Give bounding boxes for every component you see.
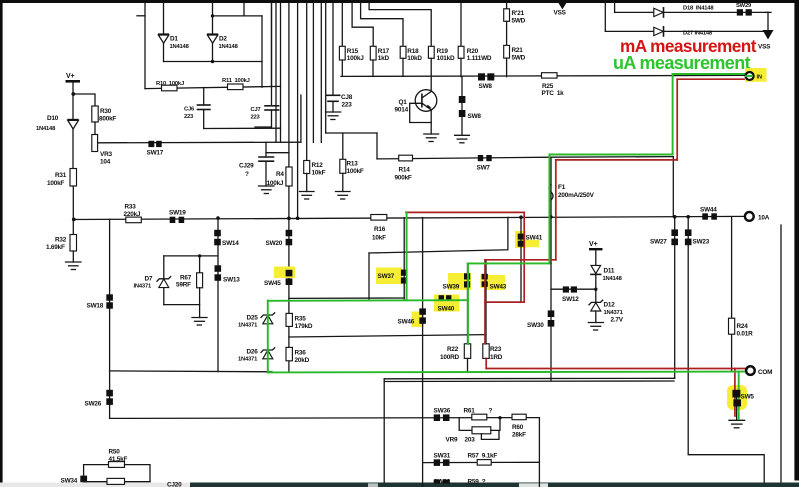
- switch SW30: [548, 310, 555, 317]
- svg-text:SW31: SW31: [434, 453, 451, 460]
- node main line left junction: [72, 218, 76, 222]
- node SW23 main junction: [686, 215, 690, 219]
- svg-text:223: 223: [251, 115, 261, 121]
- svg-text:SW40: SW40: [438, 306, 455, 313]
- node bus6 main junction: [296, 216, 300, 220]
- svg-text:SW46: SW46: [398, 319, 415, 326]
- svg-text:V+: V+: [66, 73, 74, 80]
- wire segment B y252: [369, 217, 508, 253]
- svg-text:D12: D12: [604, 302, 616, 309]
- svg-text:R57 9.1kF: R57 9.1kF: [468, 453, 498, 460]
- svg-text:SW19: SW19: [169, 210, 186, 217]
- wire V+ down: [72, 83, 74, 94]
- svg-text:R19: R19: [437, 48, 449, 55]
- highlight SW45: [274, 267, 295, 279]
- wire D27 row: [605, 30, 768, 32]
- route green SW40 horizontal: [268, 299, 468, 302]
- switch SW14: [214, 230, 221, 237]
- switch SW40: [439, 295, 444, 301]
- wire bus line 8 R12 column: [306, 3, 308, 161]
- route red COM horizontal: [486, 368, 746, 370]
- terminal IN: [746, 72, 754, 80]
- resistor R23 1RD: [483, 344, 489, 359]
- wire junction to R30: [73, 94, 95, 106]
- ground below R12: [300, 192, 315, 200]
- zener D7 1N4371: [159, 279, 169, 288]
- resistor R'21 5WD: [506, 3, 508, 9]
- svg-text:R35: R35: [295, 316, 307, 323]
- diode D11 1N4148: [591, 265, 601, 273]
- svg-text:R59 ?: R59 ?: [468, 479, 486, 486]
- svg-text:VR3: VR3: [100, 151, 112, 158]
- wire bus line 3 to cap rail: [280, 3, 282, 142]
- trimmer VR3: [92, 135, 98, 152]
- resistor R61: [472, 414, 487, 420]
- wire SW27 column: [674, 217, 676, 378]
- ground below SW5: [729, 420, 745, 428]
- ground below D12: [588, 323, 603, 331]
- svg-text:10kD: 10kD: [407, 55, 422, 62]
- svg-text:SW8: SW8: [468, 113, 482, 120]
- wire x369 drop: [368, 253, 370, 299]
- svg-text:CJ20: CJ20: [167, 482, 182, 487]
- svg-text:SW39: SW39: [443, 284, 460, 291]
- wire staircase feed R19: [369, 3, 431, 46]
- wire staircase feed R18: [361, 3, 403, 46]
- svg-text:D1: D1: [170, 36, 178, 43]
- switch SW34: [80, 476, 87, 483]
- wire bottom return line black: [110, 370, 272, 373]
- route green SW39 vertical: [467, 263, 469, 344]
- svg-text:VR9: VR9: [446, 437, 458, 444]
- resistor R35 179kD: [286, 313, 292, 326]
- svg-text:R22: R22: [447, 346, 459, 353]
- wire D18 row: [615, 11, 768, 13]
- svg-text:R11 100kJ: R11 100kJ: [222, 78, 250, 84]
- zener D26 1N4371: [263, 350, 273, 359]
- svg-text:5WD: 5WD: [512, 55, 526, 62]
- svg-text:SW29: SW29: [736, 3, 752, 9]
- svg-text:uA measurement: uA measurement: [613, 53, 751, 73]
- switch SW37: [401, 270, 407, 276]
- terminal 10A: [745, 212, 754, 221]
- svg-text:R14: R14: [399, 167, 411, 174]
- transistor Q1 9014: [415, 90, 437, 112]
- svg-text:223: 223: [184, 114, 194, 120]
- zener D12 1N4371 2.7V: [591, 303, 601, 311]
- frame left bar: [0, 0, 3, 484]
- wire bus line 10: [320, 3, 322, 142]
- wire vertical x163 bar to D1: [163, 3, 165, 34]
- switch SW12: [563, 286, 569, 292]
- resistor R4 100kJ: [286, 167, 292, 186]
- resistor R19 101kD: [428, 46, 434, 58]
- svg-text:CJ7: CJ7: [251, 107, 261, 113]
- svg-text:R33: R33: [125, 204, 137, 211]
- svg-text:D7: D7: [145, 276, 153, 283]
- wire black under y259: [486, 259, 556, 261]
- svg-text:1N4371: 1N4371: [238, 357, 258, 363]
- svg-text:SW14: SW14: [222, 240, 239, 247]
- svg-text:V+: V+: [589, 241, 597, 248]
- wire R12 to ground: [306, 174, 308, 192]
- switch SW43: [482, 274, 488, 280]
- svg-text:R15: R15: [347, 48, 359, 55]
- switch SW28 row: [434, 480, 440, 484]
- svg-text:R'21: R'21: [512, 10, 525, 17]
- wire black under SW39 column: [467, 264, 469, 344]
- wire F1 line to IN column: [551, 156, 673, 159]
- node bus R4 main junction: [287, 217, 291, 221]
- wire Q1 base L: [410, 103, 432, 122]
- switch SW8 upper pair: [478, 73, 485, 80]
- switch SW26: [106, 390, 113, 397]
- wire D7 box left: [163, 256, 165, 305]
- svg-text:59RF: 59RF: [176, 282, 191, 289]
- resistor R30: [92, 106, 98, 122]
- node V+ junction: [71, 92, 75, 96]
- resistor R31: [70, 169, 77, 187]
- route green IN horizontal: [673, 73, 748, 75]
- frame top bar: [0, 0, 795, 3]
- resistor R12 10kF: [304, 161, 310, 174]
- wire R35 R36 divider line: [289, 335, 486, 337]
- resistor R17 1kD: [370, 46, 376, 60]
- svg-text:R31: R31: [55, 172, 67, 179]
- switch SW13: [215, 265, 222, 272]
- wire x404 column: [403, 218, 405, 299]
- wire SW18 SW26 column: [109, 219, 111, 418]
- svg-text:900kF: 900kF: [395, 175, 412, 182]
- node SW27 main junction: [673, 215, 677, 219]
- wire D18 feed vertical: [614, 3, 616, 12]
- svg-text:41.5kF: 41.5kF: [109, 456, 128, 463]
- wire D25 D26 column black: [267, 301, 269, 373]
- diode D10 1N4148: [72, 94, 74, 120]
- svg-text:0.01R: 0.01R: [737, 331, 754, 338]
- svg-text:R50: R50: [109, 449, 121, 456]
- svg-text:SW7: SW7: [477, 165, 491, 172]
- route red mid horizontal y160: [556, 159, 677, 161]
- svg-text:R18: R18: [407, 48, 419, 55]
- switch SW41: [518, 234, 525, 240]
- svg-text:1N4148: 1N4148: [170, 44, 190, 50]
- wire horizontal y16: [213, 15, 263, 17]
- route red IN vertical: [676, 79, 678, 160]
- wire IN column to main line: [672, 157, 674, 217]
- svg-text:R10 100kJ: R10 100kJ: [156, 81, 184, 87]
- route green y263 horizontal: [468, 262, 549, 264]
- node R61 right junction: [498, 416, 501, 419]
- svg-text:100kF: 100kF: [47, 180, 64, 187]
- svg-text:IN4371: IN4371: [134, 284, 152, 290]
- wire D12 to ground: [595, 311, 597, 323]
- svg-text:R25: R25: [542, 83, 554, 90]
- wire stub y16: [137, 15, 145, 17]
- svg-text:SW12: SW12: [562, 296, 579, 303]
- switch SW19: [170, 217, 176, 223]
- svg-text:?: ?: [489, 408, 493, 415]
- svg-text:SW18: SW18: [87, 303, 104, 310]
- svg-text:SW41: SW41: [526, 235, 543, 242]
- route red y259 horizontal: [485, 259, 556, 261]
- svg-text:VSS: VSS: [554, 10, 567, 17]
- route green COM horizontal: [268, 371, 744, 374]
- route red SW41 vertical: [523, 212, 525, 302]
- svg-text:SW5: SW5: [741, 394, 755, 401]
- svg-text:SW26: SW26: [85, 401, 102, 408]
- capacitor CJ8 223: [332, 3, 334, 95]
- wire bus line 11 to Q1 feed: [325, 3, 327, 133]
- ground below Q1: [424, 134, 439, 142]
- wire bus line 7 to SW17 line: [300, 95, 302, 142]
- ground below R32: [66, 262, 82, 270]
- wire SW8 branch below line: [461, 77, 463, 96]
- route green x406 vertical: [406, 213, 408, 300]
- svg-text:1kD: 1kD: [378, 55, 390, 62]
- wire SW40 line black: [289, 297, 404, 299]
- svg-text:R32: R32: [55, 237, 67, 244]
- wire SW31 row line y462: [423, 461, 540, 463]
- resistor R50 41.5kF: [84, 465, 109, 476]
- svg-text:10kF: 10kF: [372, 235, 386, 242]
- route red F1 vertical: [555, 160, 557, 260]
- svg-text:R20: R20: [467, 48, 479, 55]
- svg-text:28kF: 28kF: [512, 432, 526, 439]
- svg-text:1.111WD: 1.111WD: [467, 55, 492, 62]
- svg-text:R13: R13: [347, 161, 359, 168]
- resistor R25 PTC 1k: [542, 73, 558, 78]
- svg-text:VSS: VSS: [758, 44, 771, 51]
- ground below CJ29: [259, 186, 275, 194]
- svg-text:CJ8: CJ8: [341, 94, 353, 101]
- potentiometer VR9 203: [459, 418, 472, 431]
- svg-text:100RD: 100RD: [440, 354, 459, 361]
- switch SW20: [286, 230, 293, 237]
- wire SW14 SW13 column: [217, 218, 219, 371]
- wire D7 box bottom: [164, 304, 200, 306]
- switch SW8 lower pair: [459, 96, 466, 103]
- wire R32 to ground: [72, 251, 74, 262]
- resistor R22 100RD: [464, 344, 470, 359]
- wire black under SW41 column: [520, 217, 522, 302]
- frame right bar: [794, 0, 799, 481]
- svg-text:IN: IN: [757, 75, 763, 81]
- svg-text:100kJ: 100kJ: [267, 180, 284, 187]
- zener D25 1N4371: [263, 315, 273, 324]
- resistor R21 5WD: [504, 45, 510, 58]
- wire black under SW43 column: [485, 260, 487, 344]
- wire SW5 stem: [736, 396, 738, 420]
- frame bottom gray strip: [0, 483, 192, 487]
- svg-text:D2: D2: [219, 36, 227, 43]
- route green F1 vertical: [548, 155, 550, 264]
- switch SW5: [732, 390, 740, 398]
- svg-text:SW43: SW43: [490, 284, 507, 291]
- svg-text:R61: R61: [464, 408, 476, 415]
- svg-text:1N4148: 1N4148: [36, 126, 56, 132]
- node SW14 top: [216, 216, 220, 220]
- resistor R16 10kF: [371, 215, 387, 221]
- power VSS center arrow: [558, 2, 567, 9]
- svg-text:800kF: 800kF: [99, 116, 116, 123]
- wire V+ to D11: [595, 250, 597, 265]
- svg-text:R12: R12: [312, 162, 324, 169]
- diode D18 1N4148: [654, 8, 663, 16]
- svg-text:SW36: SW36: [434, 408, 451, 415]
- wire black under y302: [486, 301, 522, 303]
- resistor R10 100kJ: [162, 85, 178, 91]
- wire D7 box top: [164, 255, 218, 257]
- power VSS right arrow: [763, 30, 774, 40]
- svg-text:R36: R36: [295, 350, 307, 357]
- ground below SW8: [455, 135, 470, 143]
- svg-text:SW17: SW17: [147, 150, 164, 157]
- svg-text:5WD: 5WD: [512, 18, 526, 25]
- highlight SW5: [727, 385, 747, 410]
- svg-text:SW13: SW13: [223, 277, 240, 284]
- svg-text:PTC 1k: PTC 1k: [542, 90, 565, 97]
- wire bus line 2: [275, 3, 277, 142]
- svg-text:2.7V: 2.7V: [611, 317, 624, 324]
- wire junction to R32: [72, 219, 74, 234]
- svg-text:SW30: SW30: [527, 322, 544, 329]
- wire right border vertical: [780, 225, 782, 483]
- route red y212 horizontal: [406, 211, 524, 213]
- wire VSS right vertical: [767, 12, 769, 30]
- highlight SW41: [515, 231, 526, 248]
- wire Q1 feed y133: [326, 132, 377, 134]
- svg-text:200mA/250V: 200mA/250V: [558, 192, 595, 199]
- wire bus line 9: [312, 3, 314, 142]
- svg-text:10kF: 10kF: [312, 170, 326, 177]
- svg-text:SW8: SW8: [479, 83, 493, 90]
- node SW12 right junction: [594, 288, 597, 291]
- route green mid horizontal y154: [551, 154, 673, 156]
- route red SW5 vertical: [734, 369, 736, 417]
- wire bus line 1 to CJ7: [271, 3, 273, 106]
- diode D27 1N4148: [654, 27, 663, 35]
- wire R30 to VR3: [94, 122, 96, 135]
- svg-text:D11: D11: [604, 268, 615, 275]
- svg-text:COM: COM: [758, 369, 772, 376]
- wire D1 to rail: [163, 43, 165, 61]
- wire SW8 main line y76: [341, 75, 746, 76]
- resistor R20 1.111WD: [460, 3, 462, 46]
- route red SW43 vertical: [484, 260, 486, 344]
- capacitor CJ7 223: [265, 105, 279, 107]
- svg-text:1N4148: 1N4148: [603, 276, 623, 282]
- wire double black line upper: [384, 377, 675, 380]
- svg-text:R60: R60: [512, 424, 524, 431]
- switch SW44: [702, 213, 708, 219]
- svg-text:SW27: SW27: [650, 239, 667, 246]
- svg-text:100kJ: 100kJ: [347, 55, 364, 62]
- node R67 top junction: [198, 254, 201, 257]
- wire vertical x212 bar to D2: [212, 3, 214, 34]
- svg-text:SW20: SW20: [266, 240, 283, 247]
- wire bus line 6 to main line: [297, 3, 299, 218]
- svg-text:20kD: 20kD: [295, 357, 310, 364]
- wire double black line lower: [384, 380, 674, 383]
- switch SW23: [685, 229, 692, 236]
- resistor R15 100kJ: [341, 3, 343, 46]
- svg-text:104: 104: [100, 159, 111, 166]
- switch SW29: [737, 9, 743, 15]
- svg-text:R21: R21: [512, 47, 524, 54]
- wire R10 R11 line: [145, 86, 281, 88]
- highlight SW46: [412, 312, 425, 328]
- route red R23 bottom: [485, 358, 487, 368]
- svg-text:CJ29: CJ29: [239, 163, 254, 170]
- ground below R67: [192, 318, 207, 326]
- wire Q1 emitter to ground: [430, 110, 432, 134]
- svg-text:SW23: SW23: [693, 239, 710, 246]
- switch SW36: [434, 414, 440, 421]
- highlight SW40: [434, 295, 460, 312]
- node F1 main junction: [549, 215, 552, 218]
- wire D11 to D12: [595, 274, 597, 302]
- wire CJ29 line y152: [266, 152, 289, 154]
- wire D27 feed vertical: [604, 3, 606, 31]
- wire staircase feed R17: [352, 3, 373, 46]
- svg-text:1N4148: 1N4148: [219, 44, 239, 50]
- svg-text:R24: R24: [737, 323, 749, 330]
- svg-text:R67: R67: [180, 275, 192, 282]
- svg-text:100kF: 100kF: [347, 168, 364, 175]
- frame bottom dark bar: [190, 483, 799, 487]
- terminal COM: [746, 366, 755, 375]
- resistor R32: [70, 235, 77, 252]
- svg-text:220kJ: 220kJ: [124, 211, 141, 218]
- wire SW23 column: [688, 217, 764, 483]
- switch SW39: [464, 273, 470, 279]
- node D2 rail junction: [211, 60, 214, 63]
- wire x377 column: [376, 133, 378, 159]
- route green SW5 vertical: [738, 372, 740, 419]
- route red IN horizontal: [677, 78, 744, 80]
- wire vertical bus x145 top bar to R10 line: [144, 3, 146, 89]
- route red y302 horizontal: [485, 301, 524, 303]
- highlight SW37: [376, 268, 402, 285]
- wire rail y61.5 D1 D2 bottoms: [164, 61, 263, 63]
- route green D25 vertical: [267, 301, 269, 373]
- fuse F1 200mA/250V: [549, 185, 553, 201]
- wire D2 to rail: [212, 43, 214, 61]
- switch SW7: [478, 155, 483, 161]
- resistor R36 20kD: [286, 347, 292, 360]
- wire right column x539: [538, 418, 540, 487]
- diode D1 1N4148: [158, 33, 169, 35]
- svg-text:?: ?: [245, 171, 249, 178]
- resistor R57 9.1kF: [477, 460, 491, 466]
- wire SW46 column: [422, 218, 424, 487]
- capacitor CJ29: [265, 142, 267, 157]
- resistor R24 0.01R: [729, 318, 735, 334]
- wire VR3 to SW17 line: [98, 141, 301, 144]
- wire vertical x244 bar to y16: [243, 3, 245, 16]
- svg-text:203: 203: [465, 437, 476, 444]
- wire SW8 branch to ground: [461, 117, 463, 135]
- svg-text:SW45: SW45: [264, 280, 281, 287]
- svg-text:SW37: SW37: [378, 273, 395, 280]
- ground below CJ8: [326, 112, 341, 120]
- switch SW17: [148, 141, 154, 147]
- route green IN vertical: [672, 74, 674, 155]
- wire R14 SW7 line: [377, 157, 551, 159]
- resistor R13 100kF: [342, 133, 344, 159]
- wire main line y218: [73, 216, 745, 219]
